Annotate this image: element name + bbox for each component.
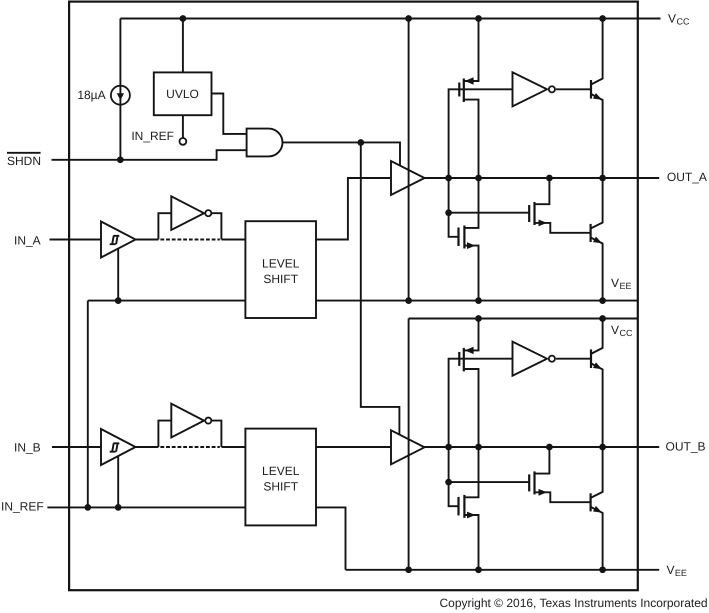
inverter A2 — [513, 72, 555, 106]
wire IN_REF riser from VEE-A rail — [87, 301, 89, 508]
svg-text:OUT_B: OUT_B — [666, 440, 706, 454]
inverter B2 — [513, 342, 555, 376]
wire IN_B input — [52, 446, 101, 448]
transistor NMOS A right — [529, 178, 590, 233]
svg-text:V: V — [611, 276, 619, 290]
wire schmittA out — [136, 239, 159, 241]
inverter A1 — [171, 196, 211, 230]
transistor NMOS B right — [529, 447, 590, 502]
svg-text:IN_B: IN_B — [14, 441, 41, 455]
wire driver B supply vertical — [408, 319, 410, 570]
wire VEE-A rail left — [88, 300, 246, 302]
transistor NMOS B left — [459, 447, 479, 570]
wire level shift B out to driver B — [316, 446, 391, 448]
wire OUT_B line — [425, 446, 660, 448]
driver B triangle — [391, 430, 425, 464]
svg-text:EE: EE — [620, 281, 632, 291]
wire nmosA-right gate — [449, 212, 530, 214]
svg-text:CC: CC — [620, 328, 633, 338]
junction dot pmosA-VCC — [475, 15, 482, 22]
wire pmosA gate net — [449, 89, 513, 178]
wire VCC top rail — [120, 18, 660, 20]
current source I1 18uA — [111, 86, 130, 105]
wire current source vertical — [119, 19, 121, 160]
junction dot outA-nmosR — [546, 175, 553, 182]
wire level shift B ref to VEE-B rail — [316, 507, 346, 569]
svg-text:IN_REF: IN_REF — [1, 500, 44, 514]
transistor PMOS A — [459, 19, 478, 179]
junction dot outB-pmos — [475, 444, 482, 451]
UVLO block U2 — [154, 72, 212, 115]
driver A triangle — [391, 161, 425, 195]
junction dot nmosB-VEEB — [475, 566, 482, 573]
svg-text:CC: CC — [677, 16, 690, 26]
svg-text:EE: EE — [675, 568, 687, 578]
level shift block A — [245, 221, 316, 318]
transistor NPN B top — [591, 319, 603, 448]
svg-text:V: V — [667, 563, 675, 577]
wire inverterA1 output — [211, 213, 221, 239]
junction dot driverA-supply-VCC — [405, 15, 412, 22]
wire inverterB2 out to npn base — [556, 358, 591, 360]
junction dot gate branch B — [445, 479, 452, 486]
junction dot outB-gates — [445, 444, 452, 451]
transistor NMOS A left — [459, 178, 479, 301]
transistor NPN B bottom — [591, 447, 603, 570]
pin label VEE — [667, 563, 687, 578]
svg-text:Copyright © 2016, Texas Instru: Copyright © 2016, Texas Instruments Inco… — [439, 596, 707, 610]
junction dot outA-npn — [599, 175, 606, 182]
wire inverterA1 input tap — [158, 213, 171, 239]
wire pmosB gate net — [449, 359, 513, 447]
junction dot npnB-VEEB — [599, 566, 606, 573]
junction dot npnA-VEE — [599, 297, 606, 304]
svg-text:IN_A: IN_A — [14, 233, 41, 247]
svg-text:SHDN: SHDN — [7, 154, 41, 168]
junction dot supplyB-VEEB — [405, 566, 412, 573]
junction dot outB-nmosR — [546, 444, 553, 451]
transistor PMOS B — [459, 319, 478, 448]
schmitt trigger B — [101, 429, 136, 465]
wire gate branch A vertical — [449, 178, 459, 237]
wire UVLO to VCC rail — [182, 19, 184, 73]
wire inverterA2 out to npn base — [556, 88, 591, 90]
wire to level shift A — [222, 239, 246, 241]
junction dot npnA-VCC — [599, 15, 606, 22]
junction dot npnB-VCCB — [599, 315, 606, 322]
junction dot schmittA-ref-rail — [115, 297, 122, 304]
IC boundary box — [69, 2, 638, 591]
level shift block B — [245, 429, 316, 526]
svg-text:LEVEL: LEVEL — [262, 257, 300, 271]
wire SHDN input — [52, 150, 247, 160]
svg-text:SHIFT: SHIFT — [263, 479, 298, 493]
wire dashed bypass A — [160, 239, 219, 241]
svg-text:IN_REF: IN_REF — [131, 129, 174, 143]
wire nmosB-right gate — [449, 481, 530, 483]
junction dot gate branch A — [445, 209, 452, 216]
junction dot outA-gates — [445, 175, 452, 182]
wire enable channel B — [361, 142, 400, 434]
net label VEE channel A — [611, 276, 632, 291]
pin label SHDN with overbar — [7, 153, 41, 168]
junction dot AND output — [357, 139, 364, 146]
junction dot outA-pmos — [475, 175, 482, 182]
wire VEE-B rail — [346, 569, 660, 571]
svg-text:OUT_A: OUT_A — [667, 170, 707, 184]
wire inverterB1 input tap — [158, 421, 171, 447]
wire VCC-B rail — [409, 318, 638, 320]
junction dot supplyA-VEE — [405, 297, 412, 304]
junction dot SHDN-currentsource — [117, 156, 124, 163]
AND gate U3 — [247, 129, 283, 157]
svg-text:UVLO: UVLO — [166, 87, 199, 101]
schmitt trigger A — [101, 222, 136, 258]
wire VEE-A rail right — [316, 300, 638, 302]
junction dot UVLO-VCC — [180, 15, 187, 22]
transistor NPN A bottom — [591, 178, 603, 301]
wire inverterB1 output — [211, 421, 221, 447]
wire dashed bypass B — [160, 446, 219, 448]
svg-text:18µA: 18µA — [77, 88, 105, 102]
junction dot INREF-riser — [84, 504, 91, 511]
junction dot nmosA-VEE — [475, 297, 482, 304]
wire schmittA ref — [117, 249, 119, 301]
wire IN_REF input — [47, 506, 245, 508]
wire to level shift B — [222, 446, 246, 448]
net label VCC channel B — [611, 323, 633, 338]
wire level shift A out to driver A — [316, 178, 391, 240]
wire schmittB out — [136, 446, 159, 448]
svg-text:LEVEL: LEVEL — [262, 464, 300, 478]
svg-text:SHIFT: SHIFT — [263, 272, 298, 286]
wire schmittB ref — [117, 456, 119, 507]
wire IN_A input — [50, 239, 102, 241]
inverter B1 — [171, 404, 211, 438]
wire driver A supply vertical — [408, 19, 410, 301]
node IN_REF bubble — [180, 138, 187, 145]
wire UVLO to AND gate input — [212, 94, 247, 134]
wire gate branch B vertical — [449, 447, 459, 506]
transistor NPN A top — [591, 19, 603, 179]
wire OUT_A line — [425, 177, 660, 179]
junction dot INREF-schmittB — [115, 504, 122, 511]
svg-text:V: V — [668, 11, 676, 25]
pin label VCC — [668, 11, 690, 26]
junction dot outB-npn — [599, 444, 606, 451]
svg-text:V: V — [611, 323, 619, 337]
wire AND output to drivers — [283, 142, 401, 165]
junction dot pmosB-VCCB — [475, 315, 482, 322]
wire UVLO to IN_REF bubble — [182, 115, 184, 138]
